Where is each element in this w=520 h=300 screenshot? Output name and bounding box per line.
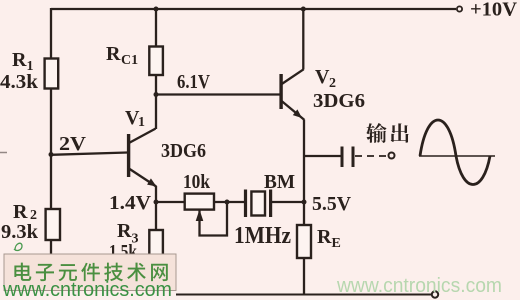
svg-text:5.5V: 5.5V bbox=[312, 193, 352, 215]
svg-text:R: R bbox=[106, 43, 121, 65]
svg-text:6.1V: 6.1V bbox=[177, 71, 210, 93]
svg-text:+10V: +10V bbox=[470, 0, 518, 21]
svg-text:1MHz: 1MHz bbox=[234, 223, 291, 249]
svg-text:3DG6: 3DG6 bbox=[313, 90, 365, 112]
svg-text:2: 2 bbox=[329, 76, 336, 91]
svg-text:10k: 10k bbox=[183, 171, 211, 193]
svg-text:www.cntronics.com: www.cntronics.com bbox=[336, 275, 502, 297]
svg-text:BM: BM bbox=[264, 171, 295, 193]
svg-text:www.cntronics.com: www.cntronics.com bbox=[2, 279, 172, 300]
svg-text:1: 1 bbox=[138, 115, 145, 130]
svg-text:R: R bbox=[13, 201, 28, 223]
svg-text:R: R bbox=[117, 220, 132, 242]
svg-text:C1: C1 bbox=[121, 53, 138, 68]
svg-text:E: E bbox=[332, 236, 341, 251]
svg-text:4.3k: 4.3k bbox=[0, 71, 39, 93]
svg-text:9.3k: 9.3k bbox=[1, 221, 39, 243]
svg-text:R: R bbox=[317, 226, 332, 248]
svg-text:V: V bbox=[315, 66, 330, 88]
svg-text:R: R bbox=[12, 49, 27, 71]
svg-text:2V: 2V bbox=[59, 133, 87, 155]
svg-text:1.4V: 1.4V bbox=[109, 192, 152, 214]
svg-text:3DG6: 3DG6 bbox=[161, 140, 206, 162]
